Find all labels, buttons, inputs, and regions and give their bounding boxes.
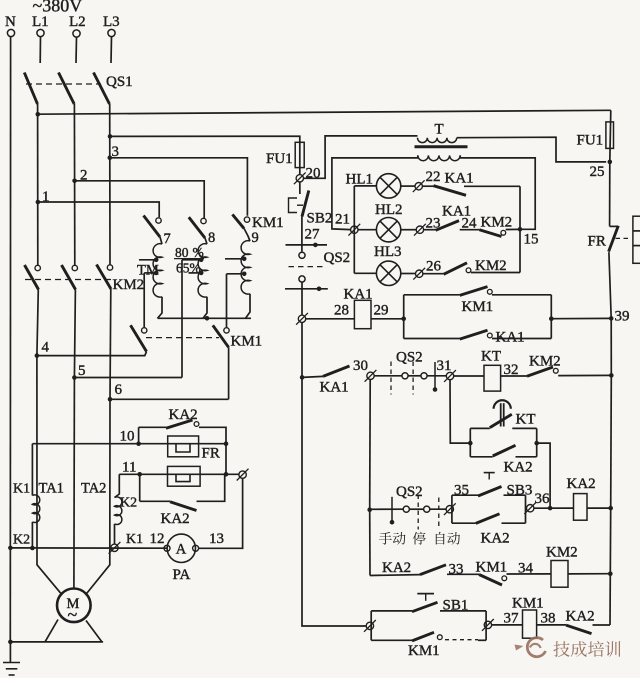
wire tap65-3 to star contact [226, 274, 228, 328]
svg-text:L2: L2 [69, 14, 86, 30]
wire L1 to motor [37, 356, 61, 594]
TM winding 3 tap 65% lead [227, 273, 244, 275]
terminal K1 TA2 [111, 544, 118, 551]
junction node 25 [608, 160, 613, 165]
wire 30 to QS2 [374, 375, 402, 377]
wire lamp rail upper [353, 186, 355, 226]
wire 33 [447, 573, 479, 575]
wire L3 to motor [87, 399, 111, 593]
wire selfhold box top right [492, 294, 551, 296]
contactor KM2 aux rowB fixed [553, 368, 558, 373]
wire selfhold box right [550, 295, 552, 339]
wire 23 to blade [424, 229, 436, 231]
wire row3 right [471, 272, 520, 274]
wire left rail [302, 323, 366, 627]
wire 29 [371, 318, 404, 320]
svg-text:8: 8 [208, 230, 215, 246]
terminal 22 [415, 183, 422, 190]
wire QS2 rowB right [427, 375, 446, 377]
wire rowE to rail [593, 624, 611, 626]
wire 37 [492, 624, 523, 626]
svg-text:QS1: QS1 [106, 74, 133, 90]
junction KT branch right [534, 441, 539, 446]
wire bar2 to 28 [301, 289, 303, 315]
wire node3 to contact 9 [110, 158, 248, 216]
wire SB1 box right [485, 611, 487, 640]
svg-text:TA1: TA1 [39, 481, 64, 497]
junction node 5 [72, 375, 77, 380]
svg-text:K1: K1 [126, 532, 143, 547]
wire TA1 branch upper [31, 444, 33, 496]
switch QS2 rowB dashed 1 [390, 362, 392, 395]
junction rowD rail [608, 571, 613, 576]
svg-text:QS2: QS2 [396, 350, 423, 366]
svg-text:K2: K2 [120, 496, 137, 511]
svg-text:SB2: SB2 [307, 211, 333, 227]
contact 7 blade [144, 216, 161, 238]
wire 32 [501, 375, 527, 377]
svg-text:~: ~ [68, 605, 78, 625]
wire rowC right [430, 508, 446, 510]
contactor KM1 aux rowD fixed [502, 576, 507, 581]
wire node2 to contact 8 [75, 181, 205, 218]
svg-text:12: 12 [150, 531, 165, 547]
svg-text:15: 15 [524, 232, 539, 248]
relay KA2 contact row10 wire right [199, 427, 226, 443]
heater FR2 box [168, 466, 201, 486]
switch QS2 upper contact [299, 252, 305, 258]
button SB2 wire upper [299, 182, 301, 194]
TM winding 2 tap 65% stub [189, 272, 201, 274]
timer KT contact blade [490, 414, 512, 427]
switch QS2 vertical dashed [289, 266, 327, 268]
svg-text:N: N [5, 14, 16, 30]
svg-text:36: 36 [535, 491, 551, 507]
svg-text:KM1: KM1 [408, 643, 440, 659]
button SB1 blade [412, 602, 438, 611]
junction node 39 [609, 316, 614, 321]
junction node 6 [108, 397, 113, 402]
svg-text:KM1: KM1 [252, 215, 284, 231]
wire HL3 right [401, 273, 416, 275]
TM winding 2 lead [205, 238, 207, 244]
wire 36 to KA2 coil [534, 507, 574, 509]
svg-text:K2: K2 [13, 533, 30, 548]
TM winding 1 tap 80% stub [139, 259, 156, 261]
svg-text:KT: KT [516, 412, 536, 428]
wire rail 25 to FR [609, 162, 611, 227]
wire T secondary left [332, 155, 418, 229]
wire node1 to contact 7 [38, 202, 159, 217]
contactor KM1 aux fixed [487, 289, 492, 294]
wire L1 upper [39, 37, 41, 63]
junction node 3a [108, 134, 113, 139]
wire tap80-2 to bus5 [181, 260, 183, 378]
switch QS2 rowB dashed 2 [412, 362, 414, 395]
wire rowD left [370, 574, 420, 577]
TM winding 1 bottom lead [158, 297, 163, 319]
button SB3 blade [478, 487, 502, 497]
junction node 4 [35, 353, 40, 358]
wire bottom bus [10, 547, 167, 549]
svg-text:KT: KT [481, 349, 501, 365]
wire HL1 row right [464, 185, 520, 187]
contactor KM2 contact row2 fixed [501, 230, 506, 235]
ammeter PA terminal right [193, 545, 199, 551]
ammeter PA [167, 534, 195, 562]
motor mount left leg [45, 620, 58, 642]
wire L2 lower [74, 290, 75, 378]
junction KT branch left [468, 441, 473, 446]
wire T primary right [457, 137, 607, 162]
junction node 2 [72, 179, 77, 184]
wire HL2 right [401, 229, 416, 231]
switch QS2 rowC contact 2 [424, 506, 430, 512]
wire star right to bus6 [228, 347, 230, 399]
wire SB3 box bottom right [502, 522, 526, 524]
wire 30 drop [369, 380, 372, 510]
wire SB3 box left [451, 495, 453, 523]
wire L3 lower [109, 289, 112, 399]
svg-text:KA2: KA2 [169, 407, 198, 423]
svg-text:22: 22 [426, 169, 441, 185]
svg-text:25: 25 [590, 164, 605, 180]
lamp HL2 [376, 218, 400, 242]
terminal 35 [446, 506, 453, 513]
svg-text:L3: L3 [103, 14, 120, 30]
TM winding 3 lead [244, 228, 250, 241]
switch QS1 pole 2 blade [59, 73, 75, 105]
svg-text:6: 6 [115, 382, 123, 398]
wire lamp right rail [519, 186, 521, 272]
wire 24 [460, 229, 480, 231]
contact 7 fixed [156, 218, 161, 223]
svg-text:35: 35 [454, 483, 469, 499]
svg-text:L1: L1 [32, 14, 49, 30]
wire HL1 left [354, 185, 376, 187]
transformer T secondary [418, 155, 460, 160]
wire HL1 right [401, 185, 415, 187]
button SB2 actuator [289, 198, 298, 213]
contactor KM1 aux rowE blade [412, 632, 434, 641]
svg-text:FR: FR [202, 446, 220, 462]
terminal L2 [73, 30, 80, 37]
wire ammeter to riser 13 [199, 478, 243, 548]
wire KT branch to rowC [537, 443, 550, 508]
wire 38 [537, 624, 566, 626]
junction row11 right [224, 472, 229, 477]
svg-text:KM2: KM2 [113, 277, 145, 293]
svg-text:5: 5 [78, 363, 86, 379]
wire 31 to KT coil [454, 375, 484, 377]
current transformer TA2 coil [115, 497, 122, 525]
wire box to 36 [526, 507, 527, 509]
fuse FU1 right wire [610, 110, 611, 162]
svg-text:13: 13 [209, 531, 224, 547]
contactor KM1 coil [523, 610, 537, 638]
junction row A left [401, 317, 406, 322]
svg-text:FU1: FU1 [266, 151, 293, 167]
relay KA1 aux fixed [487, 333, 492, 338]
wire N vertical [9, 37, 11, 642]
switch QS2 rowB position dot [433, 387, 438, 392]
svg-text:T: T [435, 122, 444, 138]
switch QS1 pole 1 blade [24, 73, 37, 105]
svg-text:7: 7 [164, 231, 171, 247]
wire row11 to TA2 [115, 474, 120, 497]
wire T secondary right [460, 155, 535, 229]
switch QS2 upper bar [286, 244, 328, 246]
svg-text:HL3: HL3 [374, 244, 402, 260]
wire rail rowD down [609, 574, 611, 625]
switch QS2 lower bar dot [317, 287, 322, 292]
svg-text:A: A [176, 542, 187, 558]
svg-text:26: 26 [426, 259, 442, 275]
wire selfhold box bottom [404, 338, 460, 340]
wire L2 to motor [73, 378, 76, 589]
junction bottom bus TA1 [30, 546, 35, 551]
fuse FU1 left body [295, 142, 304, 167]
svg-text:KA2: KA2 [567, 476, 596, 492]
TM winding 1 lead [160, 237, 162, 244]
junction rowC KT [548, 506, 553, 511]
wire row2 to node15 [506, 228, 519, 230]
wire 28 to coil [306, 318, 355, 320]
button SB3 actuator [484, 472, 495, 474]
relay KA2 row11 wire [140, 500, 170, 502]
wire row10-row11 riser [225, 444, 227, 475]
TM winding 1 tap 65% [154, 271, 159, 276]
fuse FU1 left wire [299, 142, 301, 174]
wire L3 upper [110, 37, 113, 63]
junction node 15 [518, 227, 523, 232]
terminal rowE left [366, 622, 373, 629]
wire selfhold box left [403, 295, 405, 339]
contactor KM1 star left fixed [142, 328, 147, 333]
junction rowC rail [608, 506, 613, 511]
switch QS2 lower contact [299, 276, 305, 282]
relay KA2 row11 blade [170, 502, 197, 511]
contactor KM2 contact row3 fixed [466, 268, 471, 273]
wire L3 main [109, 104, 111, 265]
wire KT box bottom right [516, 456, 537, 458]
contactor KM2 contact row2 blade [479, 230, 501, 237]
fuse FU1 right body [606, 122, 614, 148]
relay KA1 contact row2 blade [436, 221, 459, 231]
svg-text:30: 30 [353, 358, 368, 374]
junction top bus L1 [36, 112, 41, 117]
relay KA2 contact rowD blade [420, 565, 446, 575]
svg-text:KA2: KA2 [161, 511, 190, 527]
motor mount right leg [86, 621, 102, 642]
thermal relay FR heater box [633, 216, 640, 263]
wire L2 upper [75, 37, 78, 63]
wire KT box top right [512, 427, 536, 429]
wire 31 drop [450, 380, 470, 443]
TM winding 3 tap 80% [242, 257, 247, 262]
contact 8 blade [189, 217, 205, 238]
relay KA2 row11 riser left [139, 474, 141, 501]
contactor KM2 coil [551, 561, 568, 588]
contactor KM1 aux blade [460, 287, 488, 296]
switch QS2 rowB contact 2 [421, 373, 427, 379]
terminal L1 [37, 29, 44, 36]
svg-text:KM2: KM2 [475, 258, 507, 274]
svg-text:KM1: KM1 [231, 334, 263, 350]
wire rowA to rail [551, 317, 611, 319]
svg-text:KM2: KM2 [546, 545, 578, 561]
svg-text:PA: PA [173, 567, 191, 583]
transformer T core [415, 145, 468, 148]
switch QS1 pole 3 blade [94, 73, 110, 105]
wire rail FR to 39 [609, 252, 611, 318]
switch QS2 lower bar [285, 288, 328, 290]
terminal 28 [298, 315, 305, 322]
contactor KM1 aux rowD blade [479, 575, 502, 586]
contactor KM2 link dashed [25, 279, 111, 281]
contact 8 fixed [201, 218, 206, 223]
wire L1 lower [37, 290, 38, 356]
watermark text jicheng peixun [553, 641, 569, 657]
contactor KM1 aux rowE fixed [437, 635, 442, 640]
wire KT box right [536, 428, 538, 456]
terminal 37 left [484, 621, 491, 628]
svg-text:4: 4 [42, 340, 50, 356]
TM winding 1 tap 80% [154, 258, 159, 263]
svg-text:KA1: KA1 [320, 380, 349, 396]
wire KM2 coil to rail [568, 573, 610, 575]
wire KT box left [469, 428, 471, 456]
switch QS1 link dashed [26, 83, 101, 85]
wire SB3 box top [452, 494, 478, 496]
wire contact to bar2 [301, 282, 303, 289]
svg-text:FR: FR [588, 234, 606, 250]
watermark logo [527, 638, 545, 657]
terminal 21 [351, 226, 358, 233]
wire 21 to HL2 [358, 229, 376, 231]
relay KA1 contact rowB blade [323, 366, 350, 376]
wire SB1 box top right [440, 610, 486, 612]
relay KA1 aux blade [460, 330, 488, 339]
wire HL3 left [354, 272, 376, 274]
TM winding 3 bottom lead [246, 294, 251, 319]
motor mount base [10, 641, 103, 643]
current transformer TA1 coil [32, 495, 39, 523]
terminal 26 [416, 270, 423, 277]
TM winding 2 tap 80% lead [182, 259, 201, 261]
contact 9 KM1 fixed [244, 217, 249, 222]
relay KA2 contact row10 blade [166, 420, 193, 428]
junction star bus [205, 316, 210, 321]
wire row10 [32, 443, 226, 445]
TM winding 3 tap 65% [242, 272, 247, 277]
contactor KM2 pole2 blade [62, 265, 76, 290]
svg-text:KM2: KM2 [481, 215, 513, 231]
junction mount base N [8, 640, 13, 645]
TM winding 2 tap 80% [199, 258, 204, 263]
wire 34 [507, 573, 552, 575]
svg-text:80: 80 [175, 245, 189, 260]
wire rowB left [302, 376, 323, 377]
wire SB1 box top [371, 610, 412, 612]
wire 22 to blade [422, 185, 433, 187]
junction node 1 [36, 200, 41, 205]
terminal 13 top [239, 471, 246, 478]
TM winding 3 [241, 241, 250, 294]
wire TA1 branch lower [31, 522, 33, 548]
wire lamp rail [353, 226, 355, 273]
wire L2 main [73, 104, 75, 265]
ground symbol [9, 642, 11, 662]
TM winding 2 bottom lead [203, 297, 207, 319]
wire KT box bottom left [470, 456, 492, 458]
terminal 30 [367, 372, 374, 379]
contactor KM2 pole1 fixed [35, 265, 40, 270]
svg-text:27: 27 [305, 227, 321, 243]
svg-text:KM1: KM1 [462, 299, 494, 315]
heater FR1 element [176, 444, 190, 452]
relay KA2 aux rowC blade [476, 514, 500, 524]
relay KA2 contact row10 wire [139, 426, 167, 428]
svg-text:11: 11 [122, 460, 136, 476]
svg-text:QS2: QS2 [324, 250, 351, 266]
wire rail rowB down [610, 375, 613, 508]
junction row A right [549, 316, 554, 321]
TM winding 2 tap 65% [199, 271, 204, 276]
svg-text:SB3: SB3 [507, 483, 533, 499]
wire SB3 box top right [504, 494, 526, 496]
position label shoudong [379, 532, 392, 545]
wire KA2 coil to rail [587, 507, 611, 509]
svg-text:KA1: KA1 [496, 330, 525, 346]
terminal 36 [527, 505, 534, 512]
contactor KM2 contact row3 blade [444, 263, 467, 275]
svg-text:39: 39 [615, 309, 630, 325]
switch QS2 rowB position line [434, 362, 436, 390]
wire SB1 box bottom [371, 639, 412, 641]
wire QS2 rowB mid [408, 375, 421, 377]
wire star bus [158, 317, 252, 319]
junction rowC left [367, 507, 372, 512]
terminal L3 [108, 29, 115, 36]
wire 20 to T primary [304, 136, 418, 178]
TM winding 3 tap 80% stub [225, 258, 244, 260]
relay KA2 aux KT blade [493, 445, 516, 456]
wire KT box top left [470, 427, 490, 429]
svg-text:21: 21 [335, 212, 350, 228]
lamp HL1 [376, 174, 400, 198]
wire SB3 box bottom [452, 522, 476, 524]
relay KA2 contact rowE blade [566, 625, 592, 634]
wire selfhold box top [404, 294, 460, 296]
thermal relay FR contact tick [610, 225, 618, 227]
wire node3 to FU1 left [110, 136, 300, 142]
junction rowB rail [609, 373, 614, 378]
terminal N [7, 29, 14, 36]
switch QS2 rowC position dot [390, 520, 395, 525]
heater FR2 element [176, 474, 190, 481]
contactor KM1 star link dashed [146, 337, 219, 339]
wire SB3 box right [525, 495, 527, 523]
svg-text:31: 31 [437, 358, 452, 374]
wire row11 [119, 473, 239, 475]
wire top bus [38, 110, 611, 114]
svg-text:9: 9 [252, 230, 259, 246]
switch QS2 upper bar dot [313, 243, 318, 248]
contactor KM2 pole3 fixed [107, 265, 112, 270]
wire 26 to blade [423, 273, 444, 275]
switch QS2 rowC contact 1 [403, 506, 409, 512]
